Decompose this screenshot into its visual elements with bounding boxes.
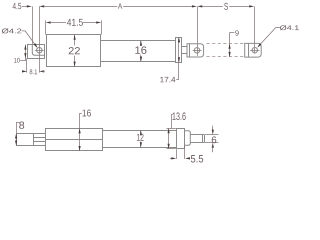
dimension 16 front line arrows text bbox=[140, 41, 142, 46]
dimension 8 leader and line with arrows bbox=[16, 122, 19, 124]
dimension 10 text and leader bbox=[14, 58, 20, 63]
front view: extended block collar line bbox=[248, 43, 250, 57]
plan view: flat tip blade lines bbox=[190, 134, 204, 136]
plan view: tube lines bbox=[102, 130, 176, 132]
dimension 8.1 arrows and text bbox=[22, 71, 25, 73]
dimension 13.6 extension stubs bbox=[166, 128, 175, 130]
front view: actuator rod bbox=[181, 46, 187, 48]
dimension 16 plan text and bracket bbox=[83, 109, 91, 116]
dimension 13.6 line and arrows bbox=[168, 128, 170, 148]
dashed stroke extension top line bbox=[207, 43, 245, 45]
plan view: rod collar with chamfer bbox=[185, 131, 190, 146]
dimension 8.1 extension line left bbox=[26, 58, 28, 72]
dimension 4.5 text bbox=[13, 3, 22, 9]
dimension S line with arrows bbox=[197, 5, 202, 7]
dimension 6 extension lines bbox=[205, 134, 218, 136]
extension line from clevis hole center bbox=[39, 6, 41, 72]
extension line extended-stroke hole center bbox=[254, 6, 256, 53]
dimension 41.5 line arrows text bbox=[46, 21, 51, 23]
extension line at x=32.2 bbox=[32, 6, 34, 44]
dimension 9 text and hook bbox=[235, 30, 238, 35]
label dia 4.2 with leader arrow bbox=[2, 28, 22, 33]
dimension 17.4 leader and text bbox=[178, 62, 180, 79]
plan view: clevis tab bbox=[17, 134, 34, 146]
plan view: body parting midline bbox=[46, 139, 103, 141]
front view: extended rod end hole circle bbox=[252, 48, 257, 53]
front view: extended rod end block (stroke out) bbox=[245, 43, 262, 57]
front view: clevis inner plate with rounded corner bbox=[32, 45, 45, 56]
dimension A line with arrows bbox=[39, 5, 44, 7]
plan view: tip inner line and end bbox=[202, 135, 204, 143]
dimension 13.6 text and leader bbox=[173, 112, 186, 120]
front view: clevis end block bbox=[28, 45, 45, 59]
front view: rod end block collar line bbox=[189, 44, 191, 57]
dimension 6 arrows and text bbox=[212, 126, 214, 130]
plan view: clevis neck bbox=[34, 134, 46, 146]
front view: rod end hole crosshair bbox=[193, 50, 202, 52]
front view: rod end hole circle bbox=[194, 48, 199, 53]
dimension 5.5 extension lines bbox=[176, 149, 178, 159]
plan view: flange plate bbox=[177, 129, 185, 149]
front view: tube lower line bbox=[101, 61, 175, 63]
dimension 12 line arrows text bbox=[140, 130, 142, 133]
front view: motor body rectangle bbox=[47, 35, 101, 67]
dimension 10 line and arrows bbox=[25, 45, 27, 61]
front view: extended hole crosshair bbox=[250, 50, 259, 52]
dimension 16 plan line and arrows bbox=[79, 113, 81, 151]
front view: tube upper line bbox=[101, 40, 175, 42]
front view: clevis hole circle bbox=[37, 48, 42, 53]
plan view: clevis slot lines bbox=[33, 137, 45, 139]
dimension 8 text bbox=[19, 122, 24, 129]
dimension 5.5 arrows and text bbox=[170, 158, 172, 160]
extension line rod-end hole center bbox=[197, 6, 199, 55]
front view: rod end block bbox=[187, 44, 204, 57]
front view: end flange plate bbox=[176, 38, 182, 63]
dimension 4.5 line and arrow bbox=[22, 6, 27, 8]
dimension 22 line arrows text bbox=[74, 35, 76, 46]
dashed stroke extension bottom line bbox=[207, 56, 245, 58]
label dia 4.1 with leader arrow bbox=[280, 25, 299, 30]
dimension 9 line and arrows bbox=[229, 33, 231, 57]
dimension 41.5 extension lines bbox=[45, 20, 47, 34]
plan view: body rectangle bbox=[46, 129, 103, 151]
dimension 17.4 arrows inside flange bbox=[178, 37, 180, 62]
front view: clevis hole crosshair horizontal bbox=[35, 50, 43, 52]
